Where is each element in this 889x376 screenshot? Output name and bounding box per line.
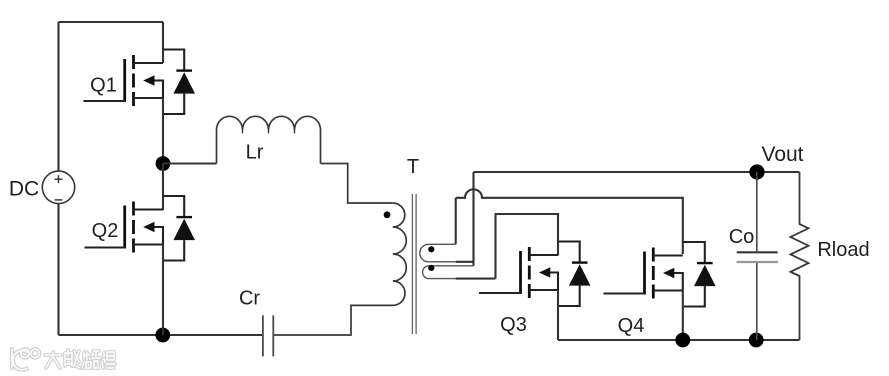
transformer T primary winding bbox=[274, 203, 407, 335]
diode D1 (Q1 body diode) bbox=[163, 50, 195, 115]
transistor Q3 bbox=[479, 247, 558, 298]
svg-text:Co: Co bbox=[729, 226, 755, 248]
watermark logo bbox=[12, 349, 39, 370]
wire Lr to transformer primary top bbox=[321, 164, 393, 204]
node A (half-bridge midpoint) bbox=[156, 156, 171, 171]
wire node A to Lr bbox=[163, 162, 217, 164]
source DC bbox=[42, 171, 74, 203]
capacitor Cr bbox=[263, 315, 273, 356]
svg-text:Q2: Q2 bbox=[92, 220, 119, 242]
wire upper secondary to Q4 drain (with hop) bbox=[456, 189, 683, 254]
transistor Q2 bbox=[85, 202, 164, 253]
node Co junction bbox=[749, 333, 764, 348]
wire Q1 source to node A bbox=[162, 98, 164, 164]
transistor Q4 bbox=[604, 248, 683, 299]
svg-text:Vout: Vout bbox=[761, 143, 803, 166]
svg-text:Q1: Q1 bbox=[90, 75, 117, 97]
transformer T core bbox=[412, 194, 416, 334]
wire left rail lower (DC- to bottom rail) bbox=[57, 204, 59, 336]
capacitor Co bbox=[737, 172, 779, 340]
wire Q4 source to bottom rail bbox=[682, 291, 684, 341]
wire Q3 source to bottom rail bbox=[557, 290, 559, 340]
wire Q2 source to bottom rail bbox=[162, 245, 164, 336]
diode D2 (Q2 body diode) bbox=[163, 196, 195, 261]
svg-text:Cr: Cr bbox=[239, 287, 260, 309]
watermark text bbox=[45, 350, 115, 368]
diode D4 (Q4 body diode) bbox=[683, 242, 716, 307]
transformer T secondary winding lower bbox=[423, 266, 474, 279]
svg-text:Q3: Q3 bbox=[500, 314, 527, 336]
resistor Rload bbox=[791, 172, 809, 340]
node primary winding phase dot bbox=[384, 211, 391, 218]
wire upper secondary vertical bbox=[455, 198, 457, 245]
diode D3 (Q3 body diode) bbox=[558, 242, 591, 307]
transformer T secondary winding upper bbox=[420, 244, 456, 261]
svg-text:DC: DC bbox=[9, 178, 39, 201]
wire lower secondary to Q3 drain bbox=[496, 214, 559, 279]
svg-text:T: T bbox=[407, 156, 419, 178]
wire top rail primary bbox=[59, 21, 164, 23]
transistor Q1 bbox=[84, 55, 164, 106]
node Q4 source junction bbox=[675, 333, 690, 348]
node Vout bbox=[749, 164, 764, 179]
svg-text:Q4: Q4 bbox=[618, 315, 645, 337]
wire bottom rail secondary bbox=[558, 339, 800, 341]
wire Vout rail bbox=[474, 171, 800, 173]
wire left rail upper (DC+ to top rail) bbox=[57, 22, 59, 171]
node B (bottom rail junction) bbox=[155, 328, 170, 343]
inductor Lr bbox=[217, 116, 321, 163]
svg-text:Rload: Rload bbox=[817, 239, 869, 261]
wire bottom rail primary bbox=[59, 334, 264, 336]
svg-text:Lr: Lr bbox=[246, 142, 264, 164]
wire Q2 drain (node A to Q2) bbox=[162, 164, 164, 211]
node secondary upper phase dot bbox=[428, 246, 434, 252]
node secondary lower phase dot bbox=[428, 265, 434, 271]
wire Q1 drain (top rail to Q1) bbox=[162, 22, 164, 63]
wire center tap to Vout rail bbox=[472, 172, 474, 266]
